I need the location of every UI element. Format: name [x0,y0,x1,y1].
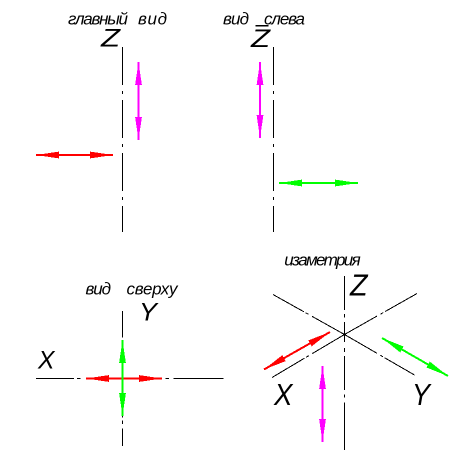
green double arrow (isometry, Y direction) [382,338,448,376]
svg-text:вид: вид [138,10,167,29]
red double arrow (main view, X direction) [36,152,113,159]
magenta double arrow (isometry, Z direction) [319,366,326,442]
svg-text:X: X [37,347,56,375]
isometry axis ray, down-left (X) [272,335,345,378]
svg-text:Z: Z [100,25,121,53]
svg-text:вид: вид [223,10,249,29]
underscore mark before "слева" [256,25,269,27]
svg-text:Z: Z [250,25,271,53]
isometry axis ray, down-right (Y) [345,335,415,376]
Z axis centerline (isometry), vertical dash-dot [344,276,346,450]
Y axis centerline (top view), vertical dash-dot [122,311,124,446]
svg-text:Y: Y [139,299,159,327]
red double arrow (top view, X direction) [86,375,162,382]
svg-text:Y: Y [412,377,432,412]
magenta double arrow (main view, Z direction) [135,62,142,140]
isometry axis ray, up-right [345,294,418,335]
Z axis centerline (left view), dash-dot vertical [273,47,275,232]
svg-text:вид: вид [86,280,112,299]
isometry axis ray, up-left [273,295,345,335]
green double arrow (left view, Y direction) [279,180,358,187]
Z axis centerline (main view), dash-dot vertical [122,47,124,232]
svg-text:X: X [273,377,294,412]
svg-text:слева: слева [264,10,305,29]
magenta double arrow (left view, Z direction) [257,62,264,138]
svg-text:Z: Z [349,268,368,303]
red double arrow (isometry, X direction) [264,332,330,370]
X axis centerline (top view), horizontal dash-dot [36,378,224,380]
svg-text:сверху: сверху [127,280,180,299]
green double arrow (top view, Y direction) [119,340,126,416]
